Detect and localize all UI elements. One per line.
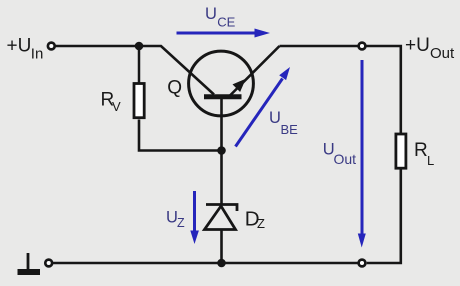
wire base node to zener [220,151,223,205]
label Rv [101,89,122,114]
label +UIn [7,35,44,62]
wire bottom rail [53,262,358,265]
svg-text:U: U [205,5,217,23]
svg-text:CE: CE [217,14,235,29]
wire junction down to Rv [138,46,141,84]
terminal +UOut [359,43,366,50]
svg-text:U: U [269,109,281,127]
svg-text:R: R [414,140,428,161]
svg-text:Z: Z [257,216,265,231]
label U_Z [166,208,185,229]
svg-text:Out: Out [430,45,455,62]
zener diode Dz [205,205,238,230]
transistor emitter arrowhead [233,79,246,92]
wire Rv bottom to base node [139,120,222,151]
svg-text:Q: Q [167,77,182,98]
node bottom junction [217,259,226,268]
svg-text:BE: BE [281,122,299,137]
label +UOut [405,35,455,62]
wire zener to bottom junction [220,230,223,264]
resistor RL [396,134,406,168]
voltage arrow U_CE [177,29,271,38]
wire emitter to output terminal [280,45,358,48]
svg-text:L: L [427,153,434,168]
ground symbol [18,253,41,272]
svg-text:V: V [112,99,121,114]
terminal ground [45,260,52,267]
wire input terminal to junction [55,45,139,48]
svg-text:Z: Z [177,216,185,230]
terminal bottom right [359,260,366,267]
wire RL bottom to bottom-right terminal [367,169,401,263]
terminal +UIn [48,43,55,50]
resistor Rv [134,84,144,118]
wire junction to collector [139,46,214,95]
voltage arrow U_Out [358,60,366,248]
svg-text:+U: +U [7,35,32,56]
voltage arrow U_Z [190,191,199,244]
label Dz [245,208,265,232]
wire output terminal to RL [367,46,401,133]
svg-text:In: In [31,45,44,62]
label U_CE [205,5,236,29]
voltage arrow U_BE [236,67,291,147]
label U_Out blue [323,141,356,168]
label RL [414,140,434,168]
transistor Q [189,46,280,151]
node base junction [217,146,226,155]
svg-text:+U: +U [405,35,430,56]
label U_BE [269,109,298,137]
node input junction [135,42,144,51]
svg-text:Out: Out [334,151,357,167]
